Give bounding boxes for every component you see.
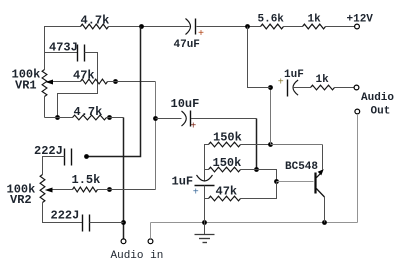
svg-text:VR1: VR1 (15, 79, 37, 93)
wire output node riser (270, 88, 272, 145)
wire VR2 wiper to 1.5k (63, 189, 73, 191)
wire input ground riser (150, 223, 152, 239)
node rail at ground symbol (202, 220, 207, 225)
wire 47k feedback to base branch (241, 182, 277, 199)
svg-text:1.5k: 1.5k (72, 173, 101, 187)
transistor Q1 collector (316, 189, 324, 198)
svg-text:150k: 150k (213, 156, 242, 170)
node base junction (274, 179, 279, 184)
svg-text:222J: 222J (34, 144, 63, 158)
resistor R9 47k (feedback) (209, 196, 241, 201)
wire 150k lower left lead (205, 169, 209, 171)
node 222J top row (84, 154, 89, 159)
ground (195, 223, 215, 243)
capacitor C7 1uF output curved plate (293, 80, 298, 95)
svg-text:150k: 150k (213, 131, 242, 145)
capacitor C6 1uF straight plate (195, 185, 215, 187)
node input at bottom row (121, 220, 126, 225)
potentiometer VR1 100k body (42, 70, 47, 97)
capacitor C5 10uF curved plate (182, 111, 187, 126)
svg-text:4.7k: 4.7k (81, 14, 110, 28)
svg-text:+: + (193, 188, 199, 199)
node after 1.5k (107, 187, 112, 192)
capacitor C4 222J bottom left plate (82, 215, 84, 232)
wire 1uF to output 1k (293, 87, 311, 89)
node 473J loop at 4.7k row (55, 115, 60, 120)
capacitor C3 222J right plate (71, 149, 73, 166)
svg-text:+: + (190, 122, 196, 133)
wire 473J loop down-left (58, 53, 98, 118)
wire output node to supply node (248, 27, 271, 88)
svg-text:4.7k: 4.7k (74, 105, 103, 119)
wire 222J bottom to input node (90, 222, 124, 224)
capacitor C2 473J right plate (84, 45, 86, 62)
wire top-left corner (45, 27, 81, 70)
capacitor C5 10uF straight plate (190, 111, 192, 127)
wire VR1 bottom row (45, 117, 73, 119)
terminal audio out ground (355, 109, 360, 114)
node output junction (268, 85, 273, 90)
svg-text:47uF: 47uF (174, 39, 200, 51)
wire audio out ground to rail (357, 114, 359, 223)
svg-text:1k: 1k (308, 14, 322, 26)
svg-text:5.6k: 5.6k (258, 14, 285, 26)
svg-text:1uF: 1uF (284, 69, 304, 81)
resistor R2 5.6k (261, 24, 284, 29)
wire emitter riser vertical (322, 145, 324, 170)
wire collector to rail (324, 197, 326, 223)
svg-text:Out: Out (371, 106, 391, 118)
wire VR1 wiper to 47k (63, 81, 81, 83)
resistor R3 1k (supply) (303, 24, 326, 29)
wire mix riser to 10uF (156, 118, 182, 120)
terminal audio in signal (121, 239, 126, 244)
svg-text:473J: 473J (49, 41, 78, 55)
node mix riser at 10uF row (153, 116, 158, 121)
wire 47k feedback left lead (205, 198, 209, 200)
capacitor C1 47uF curved plate (186, 19, 191, 35)
capacitor C6 1uF curved plate (197, 175, 213, 181)
svg-text:BC548: BC548 (285, 161, 318, 173)
capacitor C4 222J bottom right plate (89, 215, 91, 232)
node supply junction (245, 24, 250, 29)
wire 150k lower to base branch (241, 170, 277, 182)
capacitor C1 47uF straight plate (195, 19, 197, 35)
node after 47k (113, 79, 118, 84)
wire 47uF to supply node (197, 26, 261, 28)
svg-text:1k: 1k (316, 74, 330, 86)
node top-left junction (139, 24, 144, 29)
terminal audio in ground (148, 239, 153, 244)
wire 4.7k to 47uF (109, 26, 190, 28)
node after mid 4.7k (107, 115, 112, 120)
resistor R5 4.7k (mid) (73, 115, 107, 120)
capacitor C2 473J left plate (77, 45, 79, 62)
svg-text:10uF: 10uF (171, 97, 200, 111)
VR2 wiper arrow (45, 188, 63, 193)
resistor R10 1k (output) (311, 85, 335, 90)
node collector junction (268, 142, 273, 147)
resistor R6 1.5k (bass) (73, 187, 98, 192)
terminal audio out signal (354, 85, 359, 90)
potentiometer VR2 100k body (40, 175, 45, 203)
svg-text:Audio in: Audio in (111, 250, 164, 262)
wire audio input vertical (123, 118, 125, 239)
wire mix riser vertical (155, 82, 157, 190)
wire 1uF bottom to rail (204, 186, 206, 223)
resistor R1 4.7k (top) (81, 24, 109, 29)
svg-text:222J: 222J (51, 209, 80, 223)
wire divider vertical (256, 119, 258, 170)
wire emitter top to collector node (271, 144, 323, 146)
svg-text:+12V: +12V (347, 14, 374, 26)
wire 150k upper to collector node (241, 144, 271, 146)
wire VR1 bottom lead (44, 97, 46, 118)
wire 10uF to divider vertical (191, 118, 257, 120)
wire 5.6k to 1k (284, 26, 303, 28)
wire main vertical to 222J row (87, 27, 141, 157)
resistor R8 150k (lower) (209, 167, 241, 172)
node divider at 150k lower (254, 167, 259, 172)
svg-text:Audio: Audio (361, 92, 394, 104)
resistor R4 47k (treble) (81, 79, 108, 84)
wire 222J to VR2 top (43, 157, 65, 175)
wire mid row corner to input line (107, 117, 124, 119)
wire base lead (277, 181, 314, 183)
terminal +12V (355, 24, 360, 29)
node rail at collector (322, 220, 327, 225)
wire VR1 top to 473J (45, 52, 78, 54)
wire 1k to audio out terminal (335, 87, 355, 89)
svg-text:+: + (278, 78, 284, 89)
wire 47k row to mix riser (108, 81, 156, 83)
VR1 wiper arrow (45, 80, 62, 85)
transistor Q1 base bar (314, 173, 316, 194)
svg-text:47k: 47k (216, 185, 238, 199)
svg-text:1uF: 1uF (172, 175, 194, 189)
resistor R7 150k (upper) (209, 142, 241, 147)
capacitor C7 1uF output straight plate (287, 80, 289, 97)
svg-text:VR2: VR2 (10, 193, 32, 207)
wire 150k upper left corner (205, 145, 209, 181)
capacitor C3 222J left plate (64, 149, 66, 166)
wire 1k to +12V terminal (326, 26, 355, 28)
wire VR2 bottom lead (43, 203, 83, 223)
svg-text:47k: 47k (73, 69, 95, 83)
wire 1.5k row to mix riser (98, 189, 156, 191)
transistor Q1 emitter with arrow (316, 169, 323, 178)
wire ground rail (151, 222, 358, 224)
